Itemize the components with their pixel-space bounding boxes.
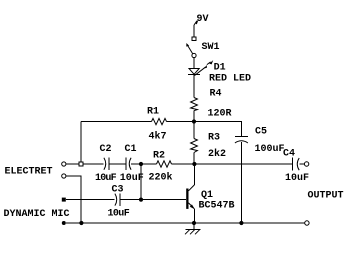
node collector junction — [192, 162, 196, 166]
svg-text:10uF: 10uF — [120, 173, 144, 184]
svg-text:C3: C3 — [112, 185, 124, 196]
svg-text:100uF: 100uF — [255, 144, 285, 155]
svg-text:220k: 220k — [149, 172, 173, 184]
node output terminal top — [304, 162, 308, 166]
node signal junction — [139, 162, 143, 166]
wire terminal2 to ground rail — [66, 176, 81, 223]
svg-text:SW1: SW1 — [202, 42, 220, 53]
resistor R4 — [191, 98, 198, 111]
capacitor C1 — [126, 158, 131, 171]
svg-text:R3: R3 — [208, 133, 220, 144]
capacitor C2 — [104, 158, 109, 171]
node 9V supply arrow — [194, 19, 199, 37]
svg-text:C5: C5 — [255, 127, 267, 138]
wire R3 top — [193, 122, 195, 139]
svg-text:C4: C4 — [283, 149, 295, 160]
svg-text:10uF: 10uF — [95, 173, 117, 184]
svg-text:C1: C1 — [125, 144, 137, 155]
svg-text:BC547B: BC547B — [199, 200, 235, 211]
wire D1 to R4 — [193, 75, 195, 98]
wire collector node to C4 — [194, 163, 292, 165]
node output terminal bottom — [305, 221, 309, 225]
svg-text:R1: R1 — [147, 107, 159, 118]
node ELECTRET terminal 1 — [62, 162, 66, 166]
wire supply rail right segment — [167, 121, 242, 123]
svg-text:DYNAMIC MIC: DYNAMIC MIC — [4, 209, 70, 220]
svg-text:R4: R4 — [210, 89, 222, 100]
node electret bias junction square — [79, 162, 83, 166]
wire terminal3 to C3 — [66, 199, 115, 201]
svg-text:R2: R2 — [153, 151, 165, 162]
wire R3 bottom — [193, 153, 195, 165]
capacitor C5 — [235, 122, 248, 224]
svg-text:10uF: 10uF — [108, 209, 130, 220]
svg-text:120R: 120R — [208, 109, 232, 120]
switch SW1 — [186, 37, 196, 58]
svg-text:4k7: 4k7 — [149, 131, 167, 143]
resistor R3 — [191, 139, 198, 153]
wire C2 to C1 — [109, 163, 126, 165]
svg-text:10uF: 10uF — [285, 173, 309, 184]
ground — [185, 223, 201, 234]
svg-text:ELECTRET: ELECTRET — [5, 167, 53, 178]
node supply rail junction — [192, 119, 196, 123]
svg-text:9V: 9V — [197, 14, 209, 25]
node base junction — [139, 198, 143, 202]
wire bias divider vertical — [140, 164, 142, 200]
capacitor C4 — [293, 158, 305, 171]
svg-text:C2: C2 — [100, 144, 112, 155]
wire C3 to Q1 base — [120, 199, 186, 201]
wire bias dropper vertical — [80, 122, 82, 163]
resistor R2 — [157, 161, 172, 167]
node DYNAMIC MIC terminal 3 — [62, 198, 66, 202]
capacitor C3 — [115, 193, 120, 206]
node ground rail junction left — [79, 221, 83, 225]
wire SW1 to D1 — [193, 58, 195, 69]
wire C1 to base node — [131, 163, 156, 165]
svg-text:OUTPUT: OUTPUT — [308, 191, 344, 202]
node emitter ground junction — [192, 221, 196, 225]
svg-text:2k2: 2k2 — [208, 148, 226, 160]
node DYNAMIC MIC terminal 4 — [62, 221, 66, 225]
wire supply rail left segment — [81, 121, 152, 123]
wire R2 to collector node — [172, 163, 195, 165]
wire ground rail — [66, 222, 305, 224]
wire terminal1 to C2 — [66, 163, 104, 165]
svg-text:RED LED: RED LED — [209, 74, 251, 85]
wire R4 to supply node — [193, 111, 195, 122]
node C5 ground junction — [239, 221, 243, 225]
LED D1 — [188, 60, 213, 75]
node ELECTRET terminal 2 — [62, 174, 66, 178]
svg-text:D1: D1 — [214, 63, 226, 74]
resistor R1 — [152, 118, 167, 124]
transistor Q1 — [186, 164, 195, 223]
